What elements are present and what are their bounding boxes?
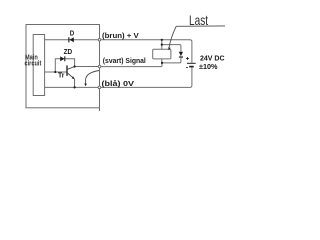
svg-text:ZD: ZD [64, 47, 73, 56]
svg-text:circuit: circuit [25, 60, 43, 68]
svg-text:Tr: Tr [58, 72, 65, 79]
svg-text:D: D [70, 28, 75, 37]
svg-text:(blå) 0V: (blå) 0V [102, 79, 135, 88]
svg-text:(brun) + V: (brun) + V [102, 31, 139, 40]
svg-text:±10%: ±10% [199, 62, 218, 71]
svg-text:(svart) Signal: (svart) Signal [103, 56, 146, 65]
